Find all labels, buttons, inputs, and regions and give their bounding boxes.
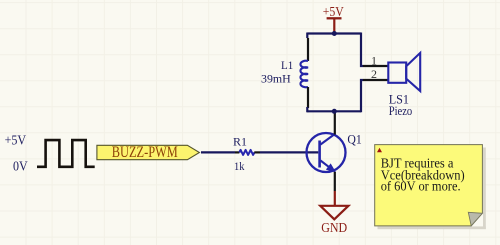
wire bottom horizontal [307,110,361,112]
svg-text:+5V: +5V [323,4,344,19]
resistor R1 left pin [235,151,239,153]
svg-text:Q1: Q1 [347,132,361,147]
note marker triangle [377,148,382,152]
wire right branch lower [361,80,363,112]
inductor L1 coil [300,61,308,88]
inductor L1 top pin [307,38,309,61]
transistor Q1 base bar [318,141,321,168]
svg-text:GND: GND [321,220,347,235]
wire top horizontal [307,32,361,34]
svg-text:+5V: +5V [5,134,27,149]
wire net label to resistor [201,151,235,153]
svg-text:Piezo: Piezo [389,103,413,118]
wire resistor to transistor base [260,151,318,153]
speaker LS1 pin 1 [363,65,388,67]
speaker LS1 body rect [388,63,406,83]
wire left branch upper [306,33,308,39]
resistor R1 right pin [254,151,260,153]
junction dot top [332,31,337,36]
junction dot bottom [332,109,337,114]
transistor Q1 emitter pin wire [334,172,336,191]
speaker LS1 horn [406,53,420,91]
svg-text:39mH: 39mH [261,73,291,85]
svg-text:1k: 1k [234,159,245,173]
svg-text:0V: 0V [13,160,28,175]
gnd power port lead [334,191,336,206]
svg-text:L1: L1 [281,60,293,72]
gnd power port triangle [320,206,348,220]
transistor Q1 emitter diagonal [321,161,329,167]
inductor L1 bottom pin [307,87,309,108]
transistor Q1 collector pin wire [334,111,336,134]
svg-text:R1: R1 [233,135,247,149]
note N1 body [375,145,483,226]
+5V power port bar [327,17,342,19]
transistor Q1 emitter arrowhead [327,164,335,171]
net label BUZZ-PWM flag [97,145,199,159]
transistor Q1 circle [307,133,346,172]
svg-text:of 60V or more.: of 60V or more. [381,179,461,194]
svg-text:2: 2 [371,67,377,81]
transistor Q1 collector diagonal [321,134,335,145]
resistor R1 zigzag [239,150,254,155]
svg-text:BUZZ-PWM: BUZZ-PWM [112,144,178,161]
svg-text:1: 1 [371,54,377,68]
speaker LS1 pin 2 [363,79,388,81]
note shadow [483,148,486,230]
note fold flap [468,212,482,226]
waveform PWM square wave [38,140,93,167]
wire right branch upper [361,33,363,67]
wire left branch lower [306,107,308,112]
+5V power port lead [333,18,335,33]
